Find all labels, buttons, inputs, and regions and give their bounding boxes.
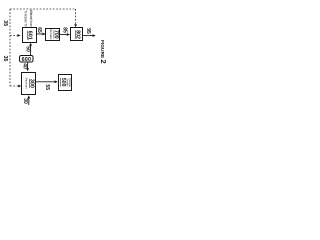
- svg-text:To Internet TV: To Internet TV: [24, 11, 28, 28]
- svg-text:802: 802: [75, 30, 81, 39]
- block 601: [23, 28, 37, 43]
- block 700: [46, 29, 60, 41]
- svg-text:50: 50: [24, 46, 30, 52]
- wire dashed arrow into block 601: [10, 35, 18, 37]
- svg-text:Stream: Stream: [65, 78, 68, 86]
- wire dashed left vertical (net 35): [9, 9, 11, 86]
- svg-text:Receiver: Receiver: [25, 78, 29, 89]
- svg-text:Storage: Storage: [68, 78, 71, 87]
- svg-text:600: 600: [22, 57, 32, 63]
- svg-text:95: 95: [85, 28, 91, 34]
- wire dashed top horizontal (net 35): [10, 8, 76, 10]
- svg-text:30: 30: [22, 98, 28, 104]
- svg-text:55: 55: [44, 84, 50, 90]
- svg-text:85: 85: [62, 27, 68, 33]
- wire arrow 601 to 700: [37, 33, 43, 35]
- svg-text:40: 40: [21, 63, 27, 69]
- svg-text:Multimedia Source: Multimedia Source: [29, 10, 33, 27]
- svg-text:35: 35: [2, 20, 8, 26]
- svg-text:FIGURE 2: FIGURE 2: [99, 40, 108, 64]
- block 300: [22, 73, 36, 95]
- svg-text:65: 65: [36, 27, 42, 33]
- svg-text:700: 700: [53, 30, 59, 39]
- wire arrow 300 to 500: [36, 81, 55, 83]
- block 500: [59, 75, 72, 91]
- svg-text:300: 300: [29, 79, 35, 88]
- wire arrow 700 to 802: [60, 34, 67, 36]
- wire dashed arrow into block 300: [10, 85, 19, 87]
- wire arrow 600 down to 300: [28, 61, 69, 63]
- wire output arrow from 802: [83, 35, 93, 37]
- svg-text:Decoder: Decoder: [49, 29, 53, 40]
- block 802: [71, 28, 83, 41]
- wire arrow 600 up to 601: [30, 45, 32, 55]
- svg-text:35: 35: [2, 56, 8, 62]
- svg-text:500: 500: [60, 78, 66, 87]
- wire input arrow up into 300: [28, 97, 30, 105]
- node 600 (rounded connector): [20, 56, 34, 63]
- svg-text:601: 601: [27, 31, 33, 40]
- wire dashed drop into block 802: [75, 9, 77, 25]
